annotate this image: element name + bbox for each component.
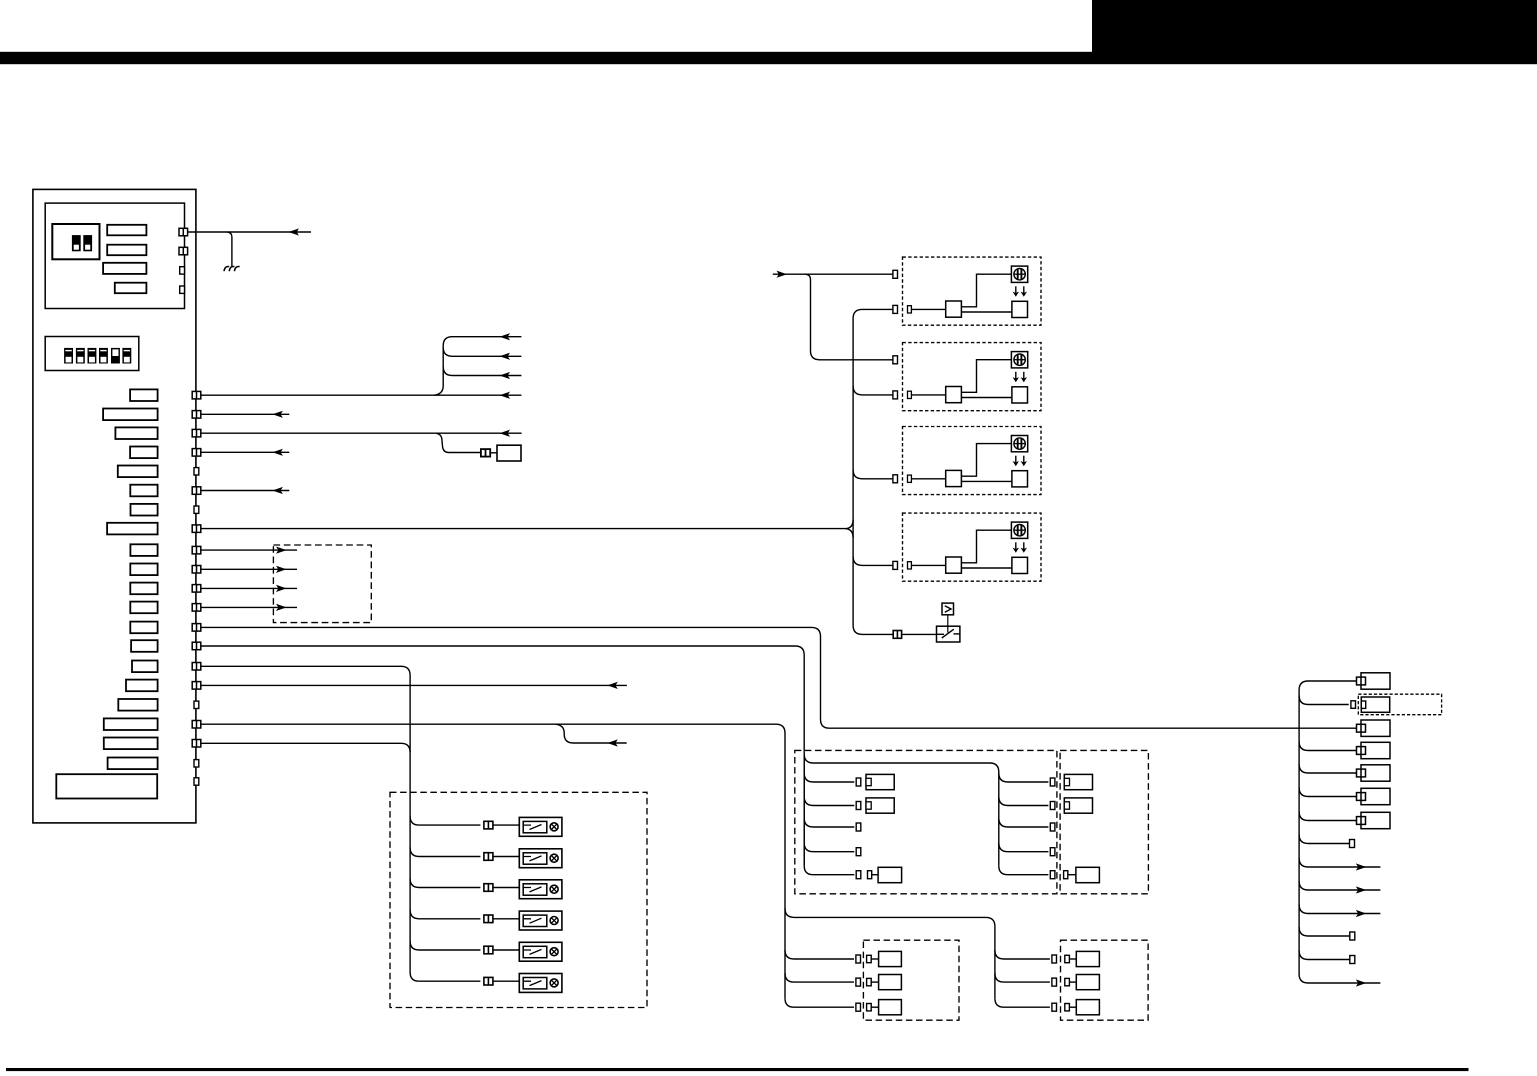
pin 18 label rect (104, 718, 158, 730)
door lock actuator M2 (dashed box) (903, 343, 1042, 411)
wire pin10 to receiver (201, 568, 297, 570)
box A cross feeder (804, 754, 999, 866)
right bus branch row2 (1299, 696, 1349, 705)
arrowhead input y=336.7 (500, 333, 511, 340)
arrowhead feed (777, 271, 788, 278)
wire pin1 trunk (201, 394, 522, 396)
connector row7 (1357, 812, 1391, 828)
module pin P3 (180, 267, 185, 274)
box D wire row2 (995, 973, 1050, 982)
arrowhead pin12 (276, 604, 287, 611)
lamp 4 ballast rect (523, 915, 547, 926)
wire ground branch (227, 232, 232, 266)
actuator M4 key cylinder icon (1011, 522, 1027, 538)
key switch stub right (954, 633, 960, 635)
arrowhead pin3 (500, 430, 511, 437)
internal module block (45, 203, 184, 308)
DIP switch SW2-2 (76, 348, 85, 364)
connector pin 2 (192, 411, 201, 419)
arrowhead pin16 (607, 682, 618, 689)
connector pin 11 (192, 585, 201, 593)
box D row1 link (1069, 958, 1076, 960)
lamp 3 ballast rect (523, 884, 547, 895)
lamp 2 wire b (493, 856, 519, 858)
arrowhead pin6 (272, 487, 283, 494)
lamp 1 ballast rect (523, 821, 547, 832)
actuator M4 wire relay to motor (961, 567, 1012, 569)
box A wire right row5 (999, 866, 1049, 875)
connector row6 (1357, 788, 1391, 804)
box D wire row1 (995, 950, 1050, 959)
box D block row3 (1076, 1000, 1099, 1015)
lamp 5 wire a (410, 941, 480, 950)
wire branch 3 (443, 367, 521, 376)
box C wire row2 (785, 973, 854, 982)
lamp 3 wire b (493, 887, 519, 889)
box D notch pin row2 (1065, 978, 1070, 985)
junction box A (dashed) (795, 750, 1057, 893)
lamp 5 ballast rect (523, 946, 547, 957)
box C notch pin row1 (867, 955, 872, 962)
right bus branch row7 (1299, 812, 1356, 821)
pin 16 label rect (126, 680, 158, 692)
sensor block (497, 445, 521, 461)
actuator M1 wire relay to motor (961, 311, 1012, 313)
connector pin 3 (192, 429, 201, 437)
pin 8 label rect (107, 523, 158, 535)
lamp 1 wire b (493, 824, 519, 826)
wire pin2 input (201, 413, 289, 415)
lamp 5 wire b (493, 949, 519, 951)
box D block row2 (1076, 975, 1099, 990)
connector pin 12 (192, 604, 201, 612)
lamp 2 wire a (410, 848, 480, 857)
box B row5 pin (1064, 871, 1068, 879)
diode box (942, 603, 954, 615)
box C block row3 (879, 1000, 902, 1015)
box B row5 block (1076, 867, 1100, 882)
pin 2 label rect (103, 409, 158, 421)
arrowhead input y=375.5 (500, 372, 511, 379)
pin 17 label rect (118, 699, 157, 711)
lamp 6 wire a (419, 980, 480, 982)
right bus branch row9 (1299, 858, 1380, 867)
arrowhead pin2 (272, 411, 283, 418)
box C row2 link (871, 981, 878, 983)
actuator M1 wire pin to relay (911, 308, 945, 310)
junction box B (dashed) (1060, 750, 1148, 893)
connector pin 16 (192, 682, 201, 690)
arrowhead row11 (1356, 910, 1367, 917)
DIP switch SW2-4 (99, 348, 108, 364)
bus branch actuator2 (853, 386, 893, 395)
lamp 6 ballast glyph (524, 981, 542, 986)
right bus branch row5 (1299, 764, 1356, 773)
actuator M2 internal pin (908, 391, 912, 398)
box A right pin row1 (1050, 778, 1055, 786)
box D row2 link (1069, 981, 1076, 983)
lamp 1 unit box (519, 817, 562, 836)
box A right pin row3 (1050, 823, 1055, 831)
box D block row1 (1076, 951, 1099, 966)
chassis ground symbol (224, 266, 240, 271)
wire J1 to sensor (490, 452, 497, 454)
connector pin 21 (194, 778, 199, 785)
box A wire left row4 (804, 843, 854, 852)
actuator M2 key cylinder icon (1011, 352, 1027, 368)
connector pin 15 (192, 663, 201, 671)
actuator M1 motor square (1012, 301, 1028, 317)
lamp 1 wire a (410, 816, 480, 825)
wire branch 2 (443, 347, 521, 356)
diode chevron (945, 606, 951, 612)
lamp 5 ballast glyph (524, 949, 542, 954)
arrowhead pin11 (276, 585, 287, 592)
right bus branch row10 (1299, 881, 1380, 890)
wire pin13 to right bus (201, 627, 1357, 728)
box A left pin row3 (856, 823, 861, 831)
connector row2 dashed shell (1358, 694, 1441, 715)
connector pin 17 (194, 701, 199, 708)
connector row2 pin (1351, 701, 1356, 709)
box C wire row3 (785, 998, 854, 1007)
box C pin row1 (856, 955, 861, 963)
DIP switch block SW1 (52, 224, 99, 259)
module label rect 1 (107, 225, 146, 236)
lamp 1 ballast glyph (524, 825, 542, 830)
box A component row2 (866, 798, 894, 813)
pin 19 label rect (104, 738, 158, 750)
connector pin 20 (194, 760, 199, 767)
lamp 4 bulb symbol (550, 917, 558, 925)
box C block row1 (879, 951, 902, 966)
connector pin 6 (192, 487, 201, 495)
lamp 6 bulb symbol (550, 979, 558, 987)
door lock actuator M1 (dashed box) (903, 257, 1042, 325)
box A row5 pin (868, 871, 872, 879)
DIP switch SW2-3 (88, 348, 97, 364)
header title block (1092, 0, 1537, 64)
lamp 4 wire a (410, 910, 480, 919)
connector pin 14 (192, 642, 201, 650)
box A wire left row2 (804, 797, 854, 806)
box A wire right row2 (999, 797, 1049, 806)
wire pin3 trunk (201, 432, 522, 434)
connector row4 (1357, 742, 1391, 758)
junction box D (dashed) (1061, 940, 1149, 1020)
box A wire left row3 (804, 818, 854, 827)
wire branch to actuator2 (806, 274, 894, 360)
actuator M2 pin 1 (893, 356, 898, 364)
bottom wide label rect (56, 774, 157, 798)
lamp 2 ballast glyph (524, 856, 542, 861)
box A row5 wire (872, 874, 878, 876)
lamp 5 bulb symbol (550, 948, 558, 956)
arrowhead row9 (1356, 863, 1367, 870)
box A wire left row5 (804, 866, 854, 875)
footer rule (6, 1068, 1469, 1071)
DIP switch SW2-5 (111, 348, 120, 364)
wire pin4 input (201, 451, 289, 453)
module label rect 2 (107, 245, 146, 256)
connector pin 13 (192, 624, 201, 632)
box A wire right row4 (999, 843, 1049, 852)
key switch stub left (937, 633, 945, 635)
box B component row2 (1064, 798, 1092, 813)
connector row1 (1357, 673, 1391, 689)
box A left pin row4 (856, 848, 861, 856)
connector row3 (1357, 720, 1391, 736)
lamp 3 connector (484, 884, 493, 892)
arrowhead branch (607, 739, 618, 746)
actuator M4 wire relay to key cylinder (961, 530, 1011, 563)
actuator M1 pin 1 (893, 270, 898, 278)
lamp 2 bulb symbol (550, 854, 558, 862)
pin 15 label rect (132, 661, 158, 673)
actuator M3 wire relay to key cylinder (961, 444, 1011, 477)
lamp 5 connector (484, 946, 493, 954)
right bus branch row13 (1299, 951, 1350, 960)
actuator M3 wire relay to motor (961, 480, 1012, 482)
arrowhead into P1 wire (289, 228, 300, 235)
actuator M2 wire relay to key cylinder (961, 360, 1011, 393)
pin 1 label rect (130, 389, 158, 401)
lamp 4 unit box (519, 911, 562, 930)
header rule bar (0, 52, 1092, 64)
connector row5 (1357, 765, 1391, 781)
actuator M3 stroke arrows (1013, 456, 1027, 467)
lamp 5 unit box (519, 942, 562, 961)
pin 10 label rect (130, 564, 157, 576)
box C row1 link (871, 958, 878, 960)
connector J2 (893, 631, 901, 639)
actuator M4 internal pin (908, 562, 912, 569)
pin 7 label rect (131, 504, 158, 516)
arrowhead pin9 (276, 547, 287, 554)
pin 20 label rect (108, 758, 158, 770)
actuator M4 stroke arrows (1013, 542, 1027, 553)
box D notch pin row3 (1065, 1004, 1070, 1011)
lamp 2 ballast rect (523, 853, 547, 864)
right bus top to row1 (1299, 681, 1356, 690)
box D notch pin row1 (1065, 955, 1070, 962)
pin 13 label rect (130, 622, 157, 634)
box A feeder stub (803, 754, 805, 866)
pin 12 label rect (130, 602, 157, 614)
actuator M1 internal pin (908, 306, 912, 313)
wire J2 to key switch (902, 633, 937, 635)
pin 11 label rect (130, 583, 157, 595)
wire pin16 input (201, 684, 627, 686)
lamp 2 connector (484, 853, 493, 861)
connector pin 7 (194, 506, 199, 513)
wire pin6 input (201, 490, 289, 492)
box D pin row2 (1052, 978, 1057, 986)
right bus (1299, 690, 1380, 983)
box B row5 wire (1068, 874, 1076, 876)
actuator bus (853, 309, 893, 634)
key switch box (937, 626, 960, 642)
lamp 1 bulb symbol (550, 823, 558, 831)
actuator M1 key cylinder icon (1011, 266, 1027, 282)
box C pin row2 (856, 978, 861, 986)
box A wire right row1 (999, 773, 1049, 782)
wire pin8 to actuator bus (201, 520, 853, 538)
actuator M4 wire pin to relay (911, 564, 945, 566)
connector pin 4 (192, 449, 201, 457)
actuator M3 relay square (946, 470, 962, 486)
DIP switch SW1-1 (72, 235, 81, 251)
wire pin18 branch (555, 724, 627, 743)
arrowhead pin10 (276, 566, 287, 573)
wire P1 to harness (188, 231, 311, 233)
actuator M1 stroke arrows (1013, 286, 1027, 297)
receiver unit (dashed) (273, 545, 371, 623)
connector J1 (481, 449, 490, 457)
right bus branch row12 (1299, 927, 1350, 936)
door lock actuator M3 (dashed box) (903, 427, 1042, 495)
right bus branch row11 (1299, 905, 1380, 914)
module pin P2 (179, 247, 188, 255)
connector pin 5 (194, 468, 199, 475)
connector row13 pin (1350, 956, 1355, 964)
door lock actuator M4 (dashed box) (903, 513, 1042, 581)
pin 9 label rect (130, 544, 157, 556)
pin 14 label rect (131, 640, 158, 652)
control unit main box (33, 189, 196, 823)
DIP switch SW1-2 (83, 235, 92, 251)
pin 6 label rect (130, 485, 157, 497)
module pin P1 (179, 228, 188, 236)
lamp 4 wire b (493, 918, 519, 920)
connector row2 notch (1361, 701, 1365, 708)
box C notch pin row2 (867, 978, 872, 985)
lamp 3 bulb symbol (550, 885, 558, 893)
box A component row1 (866, 774, 894, 789)
box A left pin row2 (856, 802, 861, 810)
box D row3 link (1069, 1006, 1076, 1008)
box C wire row1 (785, 950, 854, 959)
connector row8 pin (1350, 840, 1355, 848)
wire pin14 feeder box A (201, 646, 804, 866)
lamp 6 wire b (493, 980, 519, 982)
bus branch actuator4 (853, 556, 893, 565)
connector pin 9 (192, 546, 201, 554)
actuator M2 motor square (1012, 387, 1028, 403)
box C row3 link (871, 1006, 878, 1008)
actuator M4 pin 2 (893, 561, 898, 569)
connector pin 18 (192, 721, 201, 729)
DIP switch SW2-1 (64, 348, 73, 364)
lamp 2 unit box (519, 849, 562, 868)
connector pin 1 (192, 391, 201, 399)
arrowhead input y=395.2 (500, 392, 511, 399)
box A wire left row1 (804, 773, 854, 782)
actuator M2 stroke arrows (1013, 372, 1027, 383)
box A wire right row3 (999, 818, 1049, 827)
arrowhead input y=356.3 (500, 353, 511, 360)
actuator M3 wire pin to relay (911, 478, 945, 480)
lamp 4 ballast glyph (524, 918, 542, 923)
lamp 3 ballast glyph (524, 887, 542, 892)
wire pin18 feeder (201, 724, 785, 998)
lamp 4 connector (484, 915, 493, 923)
lamp 6 unit box (519, 974, 562, 993)
actuator M2 wire pin to relay (911, 394, 945, 396)
box A left pin row5 (856, 871, 861, 879)
pin 5 label rect (118, 466, 158, 478)
actuator M3 pin 2 (893, 475, 898, 483)
right bus branch row4 (1299, 742, 1356, 751)
box D pin row1 (1052, 955, 1057, 963)
DIP switch block SW2 (45, 337, 139, 371)
actuator M1 pin 2 (893, 305, 898, 313)
connector pin 8 (192, 525, 201, 533)
wire cross feed to box D (785, 908, 995, 998)
arrowhead row10 (1356, 886, 1367, 893)
actuator M4 motor square (1012, 557, 1028, 573)
lamp 3 wire a (410, 879, 480, 888)
right bus branch row8 (1299, 835, 1349, 844)
lamp 3 unit box (519, 880, 562, 899)
actuator M1 wire relay to key cylinder (961, 274, 1011, 307)
box A right pin row5 (1050, 871, 1055, 879)
box A right pin row4 (1050, 848, 1055, 856)
wire pin11 to receiver (201, 587, 297, 589)
junction box C (dashed) (863, 940, 959, 1020)
module label rect 4 (115, 283, 147, 294)
box D pin row3 (1052, 1003, 1057, 1011)
connector row12 pin (1350, 932, 1355, 940)
wire pin19 to lamp bus (201, 743, 410, 752)
connector pin 19 (192, 740, 201, 748)
wire pin1 branch riser (434, 337, 521, 396)
connector pin 10 (192, 566, 201, 574)
right bus branch row6 (1299, 788, 1356, 797)
pin 4 label rect (130, 447, 158, 459)
pin 3 label rect (115, 427, 157, 439)
arrowhead row14 (1356, 979, 1367, 986)
actuator M4 relay square (946, 557, 962, 573)
actuator M3 internal pin (908, 475, 912, 482)
actuator M1 relay square (946, 301, 962, 317)
lamp 1 connector (484, 821, 493, 829)
lamp 6 ballast rect (523, 978, 547, 989)
arrowhead pin4 (272, 449, 283, 456)
actuator M3 motor square (1012, 471, 1028, 487)
box C block row2 (879, 975, 902, 990)
wire pin3 branch to sensor (436, 433, 480, 452)
lamp bus lower (410, 816, 419, 981)
actuator M3 key cylinder icon (1011, 436, 1027, 452)
box A right pin row2 (1050, 802, 1055, 810)
module label rect 3 (103, 263, 146, 274)
wire diode to switch (947, 615, 949, 633)
box A row5 block (878, 867, 902, 882)
wire pin15 to lamp bus (201, 666, 410, 816)
key switch blade (942, 629, 954, 638)
box B component row1 (1064, 774, 1092, 789)
box A left pin row1 (856, 778, 861, 786)
module pin P4 (180, 286, 185, 293)
actuator M2 pin 2 (893, 391, 898, 399)
actuator M2 wire relay to motor (961, 397, 1012, 399)
lamp cluster box (dashed) (390, 792, 647, 1007)
actuator M2 relay square (946, 387, 962, 403)
lamp 6 connector (484, 977, 493, 985)
wire pin12 to receiver (201, 606, 297, 608)
box C pin row3 (856, 1003, 861, 1011)
